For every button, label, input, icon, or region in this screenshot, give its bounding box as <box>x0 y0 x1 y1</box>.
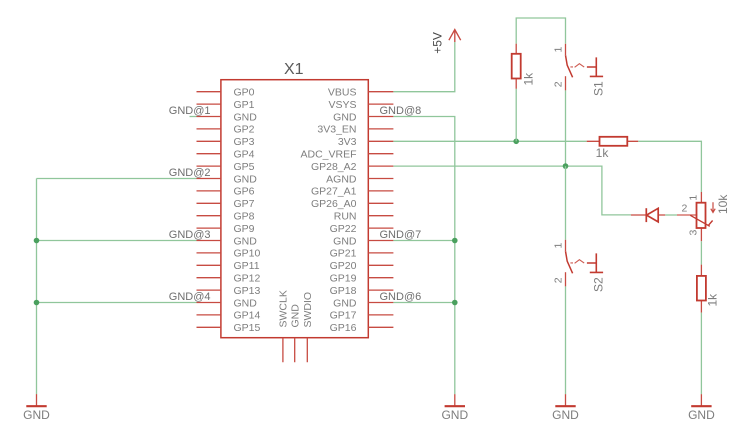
svg-text:GND: GND <box>234 111 258 123</box>
svg-text:ADC_VREF: ADC_VREF <box>300 149 356 161</box>
svg-text:GND: GND <box>333 111 357 123</box>
svg-text:1: 1 <box>553 243 565 249</box>
svg-text:GND: GND <box>234 235 258 247</box>
svg-text:VSYS: VSYS <box>328 99 356 111</box>
junction rail / GND@6 <box>452 300 458 306</box>
wire GP28_A2 row <box>393 166 631 215</box>
svg-text:2: 2 <box>553 277 565 283</box>
svg-text:GND: GND <box>289 304 301 328</box>
svg-text:GP10: GP10 <box>234 248 261 260</box>
power +5V <box>430 30 460 54</box>
svg-text:VBUS: VBUS <box>328 87 357 99</box>
svg-text:GP9: GP9 <box>234 223 255 235</box>
svg-text:+5V: +5V <box>430 32 444 54</box>
svg-text:GP4: GP4 <box>234 149 255 161</box>
svg-text:SWCLK: SWCLK <box>278 290 290 327</box>
wire S2 pin2 to ground <box>565 286 567 394</box>
svg-text:2: 2 <box>553 81 565 87</box>
wire pull-up branch upper + top rail <box>516 18 565 44</box>
wire pull-up branch lower <box>515 89 517 142</box>
junction 3V3 / pull-up branch <box>513 139 519 145</box>
svg-text:GND@6: GND@6 <box>380 291 422 303</box>
svg-text:GND: GND <box>23 408 50 422</box>
ground (right 1k) <box>688 394 715 422</box>
ground (right GND rail) <box>441 394 468 422</box>
wire 1k to pot pin1 <box>638 141 701 192</box>
svg-text:SWDIO: SWDIO <box>302 292 314 328</box>
wire GND@6 <box>393 302 454 304</box>
svg-text:GP8: GP8 <box>234 211 255 223</box>
svg-text:10k: 10k <box>716 194 730 214</box>
svg-text:GP0: GP0 <box>234 87 255 99</box>
svg-text:GP15: GP15 <box>234 322 261 334</box>
svg-text:GP16: GP16 <box>330 322 357 334</box>
svg-text:GP27_A1: GP27_A1 <box>311 186 357 198</box>
X1 right pin names <box>300 87 356 335</box>
wire 1k to ground <box>700 313 702 395</box>
svg-text:GND@1: GND@1 <box>169 105 211 117</box>
svg-text:2: 2 <box>681 203 687 215</box>
svg-text:GP2: GP2 <box>234 124 255 136</box>
svg-text:GND: GND <box>552 408 579 422</box>
wire S1 pin2 down to GP28 node <box>565 90 567 166</box>
svg-text:GP5: GP5 <box>234 161 255 173</box>
X1 bottom pin stubs (SWCLK GND SWDIO) <box>283 338 307 363</box>
svg-text:GP12: GP12 <box>234 273 261 285</box>
svg-text:GND: GND <box>441 408 468 422</box>
svg-text:GP13: GP13 <box>234 285 261 297</box>
svg-text:GP3: GP3 <box>234 136 255 148</box>
svg-text:1: 1 <box>688 195 700 201</box>
svg-text:GND@7: GND@7 <box>380 229 422 241</box>
ground (left rail) <box>23 394 50 422</box>
X1 left pin stubs <box>197 92 221 328</box>
svg-text:GP7: GP7 <box>234 198 255 210</box>
svg-text:GND: GND <box>234 173 258 185</box>
junction rail / GND@7 <box>452 238 458 244</box>
switch S2 <box>566 240 604 287</box>
svg-text:GND: GND <box>333 235 357 247</box>
svg-text:GP21: GP21 <box>330 248 357 260</box>
svg-text:GP18: GP18 <box>330 285 357 297</box>
svg-text:S1: S1 <box>592 81 606 96</box>
svg-text:3V3: 3V3 <box>338 136 357 148</box>
svg-text:GP26_A0: GP26_A0 <box>311 198 357 210</box>
svg-text:GND: GND <box>688 408 715 422</box>
svg-text:GND@2: GND@2 <box>169 167 211 179</box>
svg-text:GND@8: GND@8 <box>380 105 422 117</box>
junction left rail / GND@3 <box>34 238 40 244</box>
svg-text:GP14: GP14 <box>234 310 261 322</box>
svg-text:3V3_EN: 3V3_EN <box>317 124 356 136</box>
junction GP28_A2 / switch branch <box>563 163 569 169</box>
wire GND@3 <box>37 240 197 242</box>
svg-text:S2: S2 <box>592 277 606 292</box>
wire diode to potentiometer <box>665 214 677 216</box>
wire left ground rail <box>36 179 38 395</box>
svg-text:GP28_A2: GP28_A2 <box>311 161 357 173</box>
svg-text:X1: X1 <box>284 61 304 78</box>
potentiometer 10k <box>677 192 715 241</box>
svg-text:1k: 1k <box>596 146 610 160</box>
svg-text:1k: 1k <box>706 293 720 307</box>
svg-text:GP20: GP20 <box>330 260 357 272</box>
wire GND@7 <box>393 240 454 242</box>
module X1 body <box>221 61 368 338</box>
junction left rail / GND@4 <box>34 300 40 306</box>
wire GND@2 <box>37 178 197 180</box>
svg-text:1k: 1k <box>522 72 536 86</box>
resistor 1k (to ground) <box>697 265 720 313</box>
svg-text:GP19: GP19 <box>330 273 357 285</box>
svg-text:GP1: GP1 <box>234 99 255 111</box>
svg-text:GP17: GP17 <box>330 310 357 322</box>
svg-text:GND: GND <box>234 297 258 309</box>
diode <box>631 208 665 222</box>
switch S1 <box>566 44 604 91</box>
svg-text:GND@4: GND@4 <box>169 291 211 303</box>
svg-text:GP11: GP11 <box>234 260 260 272</box>
svg-text:GP22: GP22 <box>330 223 357 235</box>
svg-text:GND: GND <box>333 297 357 309</box>
svg-text:AGND: AGND <box>326 173 357 185</box>
X1 right pin stubs <box>368 92 393 328</box>
wire 3V3 row <box>393 140 586 142</box>
X1 left pin names <box>234 87 261 335</box>
svg-text:3: 3 <box>688 230 700 236</box>
X1 bottom pin names <box>278 290 314 327</box>
wire VBUS to +5V <box>393 42 454 92</box>
wire GND@4 <box>37 302 197 304</box>
wire GP28 node down to S2 <box>565 166 567 240</box>
svg-text:GND@3: GND@3 <box>169 229 211 241</box>
resistor 1k (pull-up) <box>512 44 536 89</box>
wire GND@1 stub <box>190 116 197 118</box>
ground (switch branch) <box>552 394 579 422</box>
svg-text:GP6: GP6 <box>234 186 255 198</box>
wire pot pin3 down <box>700 241 702 264</box>
svg-text:RUN: RUN <box>334 211 357 223</box>
resistor 1k (series to pot pin1) <box>587 137 639 160</box>
wire GND@8 to ground rail <box>393 117 454 395</box>
svg-text:1: 1 <box>553 47 565 53</box>
